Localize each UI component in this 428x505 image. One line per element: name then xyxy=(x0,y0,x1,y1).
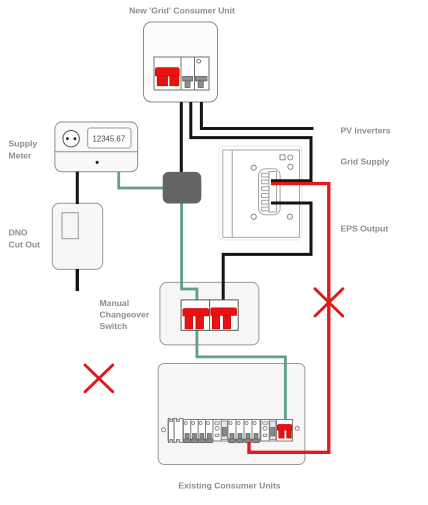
svg-text:EPS Output: EPS Output xyxy=(341,224,389,234)
svg-text:DNO: DNO xyxy=(9,228,28,238)
svg-text:Manual: Manual xyxy=(100,298,130,308)
svg-text:Cut Out: Cut Out xyxy=(9,240,41,250)
svg-text:Existing Consumer Units: Existing Consumer Units xyxy=(178,481,280,491)
svg-text:Meter: Meter xyxy=(9,151,33,161)
svg-text:12345.67: 12345.67 xyxy=(93,134,126,143)
svg-text:New 'Grid' Consumer Unit: New 'Grid' Consumer Unit xyxy=(129,6,235,16)
svg-text:Grid Supply: Grid Supply xyxy=(341,157,390,167)
svg-text:PV Inverters: PV Inverters xyxy=(341,126,391,136)
svg-text:Switch: Switch xyxy=(100,321,128,331)
svg-text:Changeover: Changeover xyxy=(100,310,150,320)
svg-text:Supply: Supply xyxy=(9,139,38,149)
